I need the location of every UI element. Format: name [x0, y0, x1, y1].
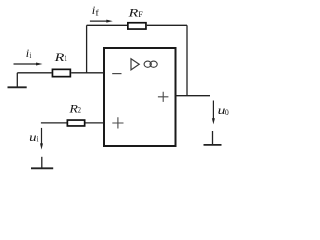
svg-text:i: i — [30, 51, 32, 60]
svg-text:F: F — [138, 10, 143, 19]
svg-text:u: u — [29, 130, 36, 144]
svg-text:R: R — [53, 50, 65, 64]
svg-text:2: 2 — [78, 106, 81, 115]
svg-text:f: f — [95, 8, 99, 17]
svg-text:0: 0 — [225, 108, 229, 117]
svg-text:1: 1 — [65, 54, 67, 63]
svg-text:i: i — [37, 135, 40, 144]
